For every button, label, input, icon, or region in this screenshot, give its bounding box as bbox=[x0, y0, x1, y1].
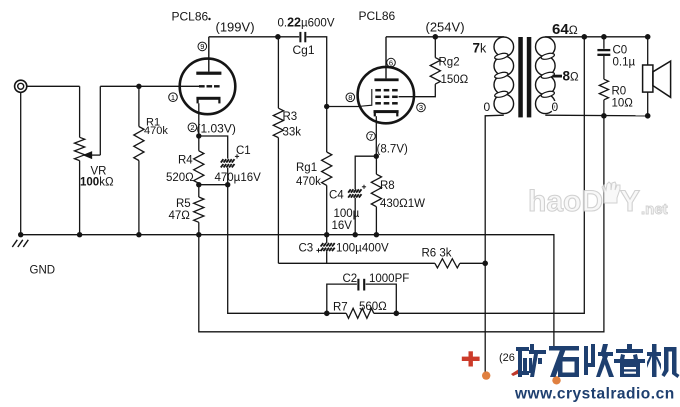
svg-text:8Ω: 8Ω bbox=[563, 68, 580, 83]
capacitor C2 1000PF bbox=[358, 279, 364, 291]
VR wiper arm bbox=[84, 86, 100, 158]
wire cathode node to C4 bbox=[355, 156, 376, 189]
svg-text:(199V): (199V) bbox=[216, 20, 255, 35]
svg-text:R6 3k: R6 3k bbox=[422, 248, 452, 260]
pentode g1 internal lead bbox=[358, 89, 372, 107]
svg-text:6: 6 bbox=[389, 58, 393, 67]
ground symbol bbox=[12, 240, 28, 247]
pentode g2 lead pin3 bbox=[399, 84, 436, 97]
svg-text:R7: R7 bbox=[333, 302, 348, 314]
svg-text:9: 9 bbox=[200, 42, 204, 51]
pin 3 bbox=[417, 103, 426, 112]
C4 plus mark bbox=[362, 185, 366, 189]
wire jack ground lead bbox=[20, 92, 22, 234]
triode V1a PCL86 envelope bbox=[180, 59, 236, 115]
pin 8 bbox=[346, 93, 355, 102]
pin 7 bbox=[367, 132, 376, 141]
filtered B+ line with R6 bbox=[278, 262, 435, 264]
svg-text:R5: R5 bbox=[176, 198, 191, 210]
svg-text:R0: R0 bbox=[612, 86, 627, 98]
svg-text:7: 7 bbox=[369, 132, 373, 141]
triode grid dashes bbox=[180, 85, 219, 87]
svg-text:520Ω: 520Ω bbox=[166, 172, 194, 184]
resistor R6 3k bbox=[435, 259, 460, 268]
triode cathode bbox=[196, 97, 220, 104]
svg-text:www.crystalradio.cn: www.crystalradio.cn bbox=[514, 386, 675, 403]
pin 1 bbox=[169, 93, 178, 102]
node R0 bottom bbox=[601, 113, 607, 119]
svg-text:0: 0 bbox=[552, 100, 559, 114]
svg-text:10Ω: 10Ω bbox=[612, 98, 634, 110]
svg-text:Y: Y bbox=[620, 185, 640, 218]
wire pentode plate to transformer (254V) bbox=[386, 36, 504, 38]
svg-text:150Ω: 150Ω bbox=[441, 74, 469, 86]
svg-text:GND: GND bbox=[30, 265, 56, 277]
supply terminal bullets bbox=[482, 371, 490, 379]
bus junction node bbox=[324, 232, 329, 237]
node plate/R3/Cg1 bbox=[275, 34, 281, 40]
resistor Rg1 470k bbox=[322, 107, 332, 235]
svg-text:16V: 16V bbox=[332, 220, 353, 232]
svg-text:R4: R4 bbox=[178, 155, 193, 167]
output transformer T1 primary winding bbox=[494, 37, 514, 114]
svg-text:haoD: haoD bbox=[528, 185, 603, 218]
pentode grids (3 dash rows) bbox=[375, 90, 397, 103]
watermark kuang shi shou yin ji bbox=[516, 344, 680, 378]
svg-text:(1.03V): (1.03V) bbox=[197, 122, 236, 136]
potentiometer VR 100k bbox=[75, 137, 85, 160]
svg-text:1000PF: 1000PF bbox=[369, 273, 409, 285]
svg-text:100µ400V: 100µ400V bbox=[336, 243, 389, 255]
svg-text:C1: C1 bbox=[236, 145, 251, 157]
wire C1 bottom to R4/R5 node bbox=[199, 168, 228, 185]
C3 plus mark bbox=[316, 248, 320, 252]
bus junction node bbox=[196, 232, 201, 237]
capacitor C0 0.1u bbox=[597, 37, 610, 79]
wire Cg1 to grid-node corner bbox=[306, 37, 326, 107]
svg-text:470k: 470k bbox=[144, 125, 168, 137]
ground bus bbox=[20, 235, 554, 346]
wire feedback riser from 64ohm node bbox=[396, 37, 584, 314]
svg-text:7k: 7k bbox=[473, 40, 488, 55]
svg-text:Rg2: Rg2 bbox=[439, 57, 460, 69]
wire return line R0-bottom to ground bus bbox=[199, 116, 604, 332]
capacitor Cg1 0.22u600V bbox=[300, 32, 305, 42]
capacitor C1 470u16V bbox=[221, 159, 235, 167]
pentode plate bbox=[374, 78, 398, 81]
wire wiper to grid line bbox=[100, 85, 180, 87]
svg-text:33k: 33k bbox=[283, 127, 302, 139]
node R7/C2 right bbox=[394, 311, 400, 317]
svg-text:3: 3 bbox=[419, 103, 423, 112]
svg-text:470k: 470k bbox=[296, 176, 321, 188]
pin 2 bbox=[188, 123, 197, 132]
wire jack to VR top bbox=[27, 86, 80, 137]
watermark haoDIY.net bbox=[528, 182, 668, 218]
red plus B+ input bbox=[462, 351, 480, 366]
feedback network C2/R7 box bbox=[327, 284, 397, 313]
capacitor C4 100u16V bbox=[348, 189, 361, 197]
wire secondary top to speaker rail bbox=[545, 36, 647, 38]
svg-text:PCL86: PCL86 bbox=[172, 10, 209, 24]
input jack J1 bbox=[15, 80, 27, 92]
node grid g1 junction bbox=[324, 104, 329, 109]
resistor R4 520 bbox=[194, 136, 204, 183]
node cathode/C1 bbox=[196, 133, 201, 138]
wire B+ riser to supply terminal bbox=[484, 263, 486, 373]
svg-text:R8: R8 bbox=[380, 180, 395, 192]
wire node to Cg1 bbox=[278, 36, 299, 38]
resistor R3 33k bbox=[273, 37, 283, 263]
node R4/R5 bbox=[196, 182, 201, 187]
triode plate bbox=[196, 72, 221, 75]
resistor Rg2 150 bbox=[430, 37, 440, 84]
resistor R7 560 bbox=[327, 308, 397, 318]
svg-text:47Ω: 47Ω bbox=[169, 210, 191, 222]
node C1 bottom bbox=[225, 182, 230, 187]
svg-text:(8.7V): (8.7V) bbox=[377, 144, 408, 156]
node B+ / R6 bbox=[482, 261, 488, 267]
svg-text:PCL86: PCL86 bbox=[359, 9, 396, 23]
wire primary bottom to B+ riser bbox=[485, 115, 504, 263]
svg-text:(254V): (254V) bbox=[426, 20, 465, 35]
wire secondary bottom rail bbox=[545, 114, 647, 117]
svg-text:C2: C2 bbox=[343, 273, 358, 285]
svg-text:Rg1: Rg1 bbox=[296, 162, 317, 174]
resistor R5 47 bbox=[194, 185, 204, 235]
node C0 top bbox=[601, 34, 607, 40]
wire g1 node to pentode grid bbox=[327, 106, 361, 108]
C1 plus mark bbox=[235, 154, 239, 158]
watermark red accent under first char bbox=[511, 369, 520, 376]
bus junction node bbox=[374, 232, 379, 237]
svg-text:0: 0 bbox=[484, 100, 491, 114]
svg-text:(26: (26 bbox=[499, 352, 515, 364]
svg-text:430Ω1W: 430Ω1W bbox=[380, 198, 425, 210]
node speaker bottom bbox=[645, 113, 651, 119]
secondary 8-ohm tap bbox=[553, 75, 563, 78]
svg-text:C4: C4 bbox=[329, 190, 344, 202]
wire cathode to C1 top bbox=[199, 136, 228, 159]
resistor R8 430 1W bbox=[371, 156, 381, 235]
svg-text:Cg1: Cg1 bbox=[293, 43, 315, 57]
bus junction node bbox=[353, 232, 358, 237]
node pentode cathode junction bbox=[374, 154, 379, 159]
pentode V1b PCL86 envelope bbox=[358, 67, 414, 123]
svg-text:470µ16V: 470µ16V bbox=[215, 172, 262, 184]
resistor R0 10 bbox=[599, 79, 608, 116]
svg-text:.net: .net bbox=[641, 201, 668, 218]
wire feedback tap down from C1 node bbox=[228, 185, 327, 314]
svg-text:64Ω: 64Ω bbox=[552, 21, 578, 38]
speaker LS bbox=[643, 37, 671, 116]
resistor R1 470k bbox=[134, 86, 144, 234]
bus junction node bbox=[77, 232, 82, 237]
pin 6 bbox=[387, 58, 396, 67]
svg-text:0.22µ600V: 0.22µ600V bbox=[278, 16, 335, 30]
pentode cathode lead pin7 bbox=[375, 116, 377, 156]
wire triode plate to Cg1 node (199V) bbox=[209, 36, 279, 38]
svg-text:2: 2 bbox=[190, 123, 194, 132]
svg-text:C0: C0 bbox=[613, 45, 628, 57]
svg-text:100kΩ: 100kΩ bbox=[80, 177, 114, 189]
svg-text:0.1µ: 0.1µ bbox=[613, 56, 636, 68]
node R1 top bbox=[136, 84, 141, 89]
node Rg2 top bbox=[433, 34, 439, 40]
triode cathode lead bbox=[198, 103, 200, 136]
bus junction node bbox=[136, 232, 141, 237]
bus junction node bbox=[18, 232, 23, 237]
svg-text:560Ω: 560Ω bbox=[359, 301, 387, 313]
capacitor C3 100u400V bbox=[321, 235, 335, 264]
node secondary top / feedback bbox=[582, 34, 588, 40]
svg-text:1: 1 bbox=[171, 93, 175, 102]
node R7/C2 left bbox=[324, 311, 330, 317]
output transformer T1 secondary winding bbox=[536, 37, 556, 114]
pentode cathode bbox=[374, 110, 399, 116]
node speaker top corner bbox=[645, 34, 651, 40]
svg-text:8: 8 bbox=[348, 93, 352, 102]
svg-text:C3: C3 bbox=[299, 243, 314, 255]
svg-text:100µ: 100µ bbox=[334, 208, 360, 220]
pin 9 bbox=[198, 42, 207, 51]
transformer core bbox=[518, 37, 523, 117]
svg-text:R3: R3 bbox=[283, 111, 298, 123]
